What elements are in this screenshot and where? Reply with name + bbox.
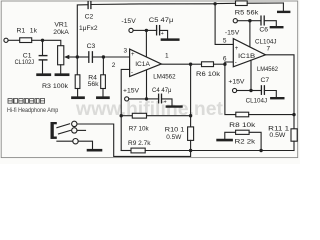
capacitor C5 (146, 26, 167, 38)
node G junction R7 left (120, 114, 123, 117)
resistor R9 (121, 148, 190, 153)
svg-text:R6 10k: R6 10k (196, 71, 221, 78)
wire V- B down to IC1B (249, 21, 251, 47)
capacitor C7 (251, 86, 276, 97)
op-amp IC1B (233, 39, 265, 67)
headphone jack J1 (51, 122, 57, 139)
svg-text:R3 100k: R3 100k (42, 83, 69, 90)
svg-text:+15V: +15V (228, 79, 245, 86)
svg-text:0.5W: 0.5W (269, 132, 286, 139)
wire V+ B up to IC1B (250, 60, 252, 90)
svg-text:IC1A: IC1A (135, 61, 150, 68)
svg-text:C5 47μ: C5 47μ (149, 17, 174, 24)
op-amp IC1A (130, 49, 162, 76)
svg-text:R8 10k: R8 10k (229, 122, 256, 129)
svg-text:CL104J: CL104J (255, 39, 277, 46)
svg-text:+15V: +15V (123, 88, 140, 95)
resistor R1 (20, 38, 32, 43)
supply -15V terminal A (129, 28, 147, 32)
node H junction bottom rail (189, 149, 192, 152)
svg-text:R10 1: R10 1 (165, 126, 185, 133)
svg-text:56k: 56k (88, 81, 100, 88)
node V- B junction (248, 19, 251, 22)
svg-text:-15V: -15V (225, 30, 240, 37)
svg-text:R7 10k: R7 10k (129, 126, 150, 133)
capacitor C2 (88, 2, 91, 9)
svg-text:R2 2k: R2 2k (235, 139, 256, 146)
svg-text:7: 7 (267, 45, 271, 52)
capacitor C4 (147, 94, 173, 105)
ground R4 (97, 96, 108, 99)
svg-text:3: 3 (124, 47, 128, 54)
svg-text:Hi-fi Headphone Amp: Hi-fi Headphone Amp (7, 107, 59, 114)
wire input to R1 (8, 39, 20, 41)
svg-text:2: 2 (112, 62, 116, 69)
svg-text:C3: C3 (87, 43, 96, 50)
svg-text:CL104J: CL104J (246, 97, 268, 104)
svg-text:0.5W: 0.5W (166, 134, 182, 141)
wire node E down to R8 (225, 64, 236, 114)
node I junction R8 right (292, 113, 295, 116)
node D junction (189, 62, 192, 65)
wire bottom rail (191, 150, 294, 152)
wire node C to pin3 (103, 56, 129, 58)
supply +15V terminal B (233, 88, 252, 92)
svg-text:-: - (131, 70, 133, 76)
svg-text:+: + (164, 100, 167, 106)
wire C2 to node B (top rail) (91, 3, 215, 6)
ground top right (278, 11, 289, 13)
svg-text:+: + (235, 46, 239, 52)
wire C3 to node C (92, 56, 103, 58)
ground C6 (271, 26, 282, 28)
svg-text:1μFx2: 1μFx2 (79, 25, 98, 32)
capacitor C1 (39, 40, 47, 73)
resistor R6 (191, 62, 225, 67)
capacitor C6 (250, 16, 276, 26)
node wiper junction (76, 55, 79, 58)
svg-text:C7: C7 (261, 77, 270, 84)
wire node B down to pin5 (215, 4, 233, 45)
jack contact 3 (57, 139, 93, 149)
svg-text:-: - (235, 60, 237, 66)
jack contact 2 (59, 128, 86, 134)
svg-text:20kA: 20kA (53, 29, 69, 36)
svg-text:R5 56k: R5 56k (235, 10, 259, 17)
node V+ B junction (249, 89, 252, 92)
svg-text:-15V: -15V (121, 18, 136, 25)
svg-text:1k: 1k (30, 28, 38, 35)
svg-text:VR1: VR1 (54, 22, 67, 29)
svg-text:CL102J: CL102J (15, 59, 34, 66)
node A junction (41, 39, 44, 42)
potentiometer VR1 (58, 46, 78, 73)
input terminal IN (4, 38, 8, 42)
svg-text:R9 2.7k: R9 2.7k (128, 140, 151, 147)
wire IC1B output pin7 (266, 55, 295, 129)
resistor R2 (225, 130, 261, 150)
svg-text:C6: C6 (259, 26, 268, 33)
svg-text:+: + (131, 52, 135, 58)
wire node A to VR1 top (43, 40, 61, 45)
wire node D down to R10 (190, 64, 192, 127)
svg-text:LM4562: LM4562 (153, 74, 175, 81)
ground C4 (167, 105, 182, 107)
resistor R3 (75, 57, 80, 96)
resistor R7 (121, 113, 190, 118)
wire pin2 feedback (121, 69, 129, 150)
wire top rail corner down to ground (282, 3, 284, 11)
svg-text:IC1B: IC1B (238, 53, 256, 60)
resistor R11 (291, 129, 297, 151)
resistor R4 (101, 57, 106, 96)
svg-text:+: + (161, 31, 164, 37)
svg-text:C4 47μ: C4 47μ (152, 87, 172, 94)
svg-text:www.hifiline.net: www.hifiline.net (75, 99, 224, 120)
jack contact 1 (57, 121, 77, 127)
ground C1 (38, 73, 50, 76)
resistor R5 (217, 1, 283, 6)
ground VR1 (56, 73, 68, 76)
capacitor C3 (89, 52, 93, 63)
svg-text:5: 5 (223, 38, 227, 45)
svg-text:1: 1 (165, 53, 169, 60)
node J junction R2 bottom (259, 149, 262, 152)
ground C7 (271, 97, 283, 99)
svg-text:C2: C2 (85, 14, 94, 21)
label title Chinese (8, 99, 45, 104)
node C junction (102, 55, 105, 58)
wire V- A down to IC1A (145, 30, 147, 56)
svg-text:LM4562: LM4562 (257, 66, 278, 73)
node V+ A junction (145, 97, 148, 100)
supply +15V terminal A (125, 97, 147, 101)
supply -15V terminal B (233, 19, 250, 23)
wire V+ A up to IC1A (146, 70, 148, 99)
ground jack (88, 149, 101, 152)
svg-text:6: 6 (223, 56, 227, 63)
node E junction (223, 62, 226, 65)
resistor R8 (236, 112, 294, 117)
wire IC1A output to node D (161, 63, 190, 65)
wire wiper node to C3 (77, 56, 89, 58)
ground R2 (218, 139, 232, 142)
resistor R10 (188, 127, 194, 151)
ground C5 (162, 38, 178, 41)
ground R3 (73, 96, 84, 99)
wire jack tip to output node (77, 124, 191, 156)
wire wiper node up to C2 (77, 5, 88, 57)
wire R1 to node A (32, 39, 43, 41)
wire node E up to pin6 (225, 62, 233, 64)
node B junction (213, 2, 216, 5)
svg-text:R1: R1 (17, 28, 26, 35)
node F junction R7 right (189, 114, 192, 117)
node V- A junction (145, 29, 148, 32)
